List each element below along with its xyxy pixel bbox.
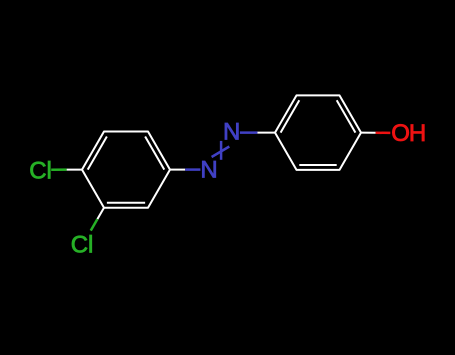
benzene ring 1 (3,4-dichlorophenyl) outline bbox=[82, 131, 170, 207]
svg-text:N: N bbox=[200, 156, 217, 183]
bond C1-N1 blue half bbox=[185, 168, 200, 171]
benzene ring 2 (phenol) outline bbox=[275, 95, 361, 169]
bond C1-N1 white half bbox=[170, 169, 185, 171]
azo N1=N2 crossed double bond, line 1 (steep) bbox=[220, 141, 223, 160]
ring 2 inner double-bond line, upper-left edge bbox=[281, 100, 300, 132]
ring 1 inner double-bond line, bottom edge bbox=[107, 202, 145, 204]
bond C4'-O red half bbox=[376, 132, 391, 135]
svg-text:Cl: Cl bbox=[71, 232, 94, 259]
bond C3-Cl green half bbox=[91, 219, 98, 230]
bond C4-Cl green half bbox=[51, 168, 66, 171]
ring 1 inner double-bond line, upper-left edge bbox=[88, 136, 107, 169]
bond C4-Cl white half bbox=[67, 169, 82, 171]
svg-text:N: N bbox=[223, 119, 240, 146]
azo N1=N2 crossed double bond, line 2 (shallow) bbox=[212, 147, 230, 158]
bond N2-C1' blue half bbox=[240, 131, 258, 134]
bond C3-Cl white half bbox=[97, 208, 104, 219]
bond C4'-O white half bbox=[361, 132, 376, 134]
svg-text:H: H bbox=[409, 120, 426, 147]
ring 2 inner double-bond line, upper-right edge bbox=[337, 100, 356, 132]
svg-text:Cl: Cl bbox=[29, 157, 52, 184]
bond N2-C1' white half bbox=[257, 132, 275, 134]
svg-text:O: O bbox=[391, 120, 410, 147]
ring 1 inner double-bond line, upper-right edge bbox=[145, 136, 164, 169]
ring 2 inner double-bond line, bottom edge bbox=[299, 164, 336, 166]
